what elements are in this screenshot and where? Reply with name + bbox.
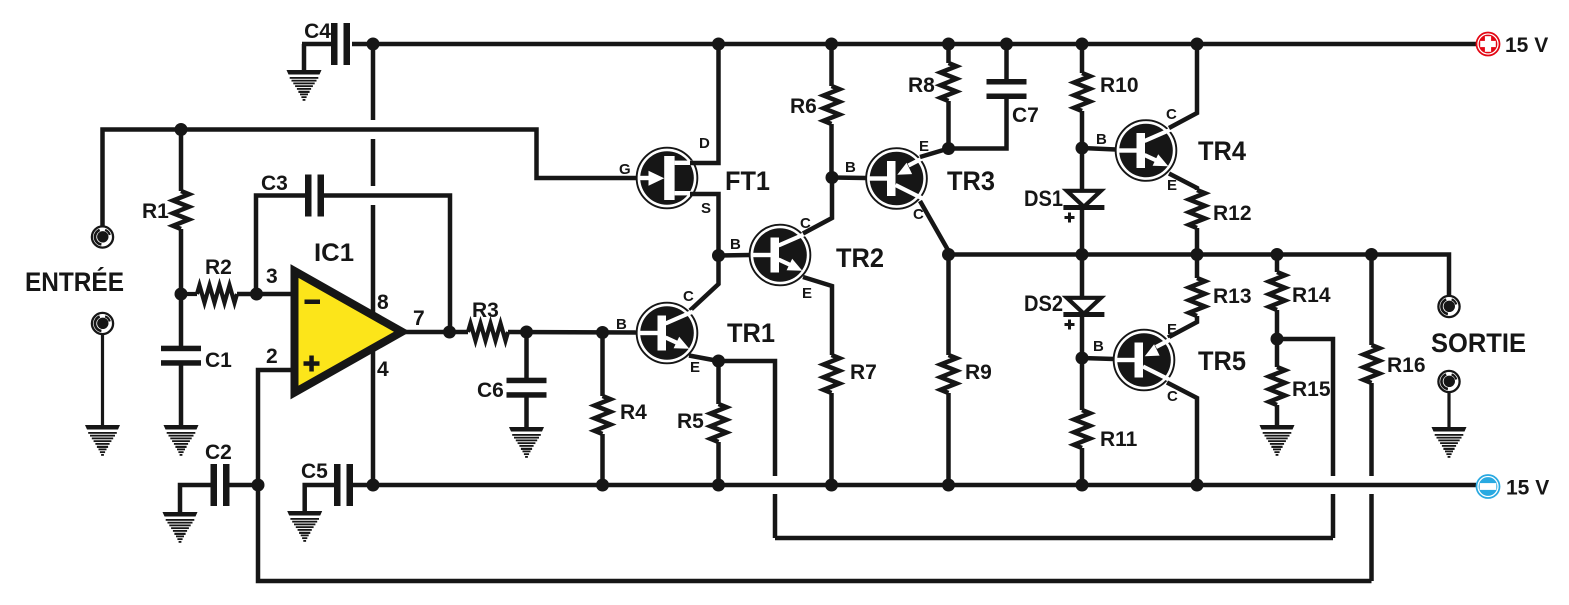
svg-text:DS1: DS1 (1024, 186, 1063, 211)
resistor R9 (941, 255, 992, 486)
svg-text:R15: R15 (1292, 378, 1331, 401)
diode DS2 (1024, 255, 1104, 359)
node TR4 collector top rail (1191, 38, 1204, 51)
node C7 top rail (1000, 38, 1013, 51)
resistor R12 (1169, 174, 1252, 255)
svg-text:B: B (616, 316, 627, 333)
transistor TR5 (1093, 321, 1246, 405)
svg-text:C2: C2 (205, 441, 232, 464)
wire output run pin7 to TR1 base (402, 330, 468, 335)
svg-text:R10: R10 (1100, 74, 1139, 97)
connector SORTIE signal (1438, 296, 1459, 317)
resistor R11 (1074, 358, 1138, 485)
resistor R10 (1074, 44, 1139, 148)
svg-text:TR1: TR1 (727, 318, 775, 348)
node R3/C6 (520, 326, 533, 339)
svg-text:S: S (701, 200, 711, 217)
svg-text:R5: R5 (677, 410, 704, 433)
node DS1 / DS2 / output rail (1076, 248, 1089, 261)
wire TR1 emitter diagonal (689, 356, 719, 362)
svg-text:R6: R6 (790, 95, 817, 118)
svg-text:C6: C6 (477, 379, 504, 402)
node R6 top rail (825, 38, 838, 51)
wire bottom supply rail (373, 483, 1476, 488)
svg-text:TR5: TR5 (1198, 346, 1246, 376)
wire TR3 collector drop (920, 201, 949, 255)
node R11 bottom (1076, 479, 1089, 492)
wire TR2 collector to R6 node (803, 178, 832, 234)
capacitor C2 (180, 441, 258, 512)
plus DS1 (1065, 213, 1075, 223)
ground C1 (164, 425, 199, 456)
wire ENTREE ground stem (101, 334, 104, 426)
svg-text:B: B (1093, 338, 1104, 355)
node C5 / pin4 (367, 479, 380, 492)
ground C2 (163, 512, 198, 543)
svg-text:G: G (619, 161, 631, 178)
capacitor C4 (302, 20, 350, 65)
svg-text:C: C (683, 288, 694, 305)
node R12 / R13 / output rail (1191, 248, 1204, 261)
wire FT1 source to node (690, 194, 719, 256)
wire C4 ground drop (302, 44, 307, 70)
resistor R14 (1269, 255, 1331, 340)
ground C6 (509, 427, 544, 458)
op-amp IC1 (295, 239, 403, 393)
svg-text:C7: C7 (1012, 104, 1039, 127)
svg-text:R8: R8 (908, 74, 935, 97)
svg-text:8: 8 (377, 291, 389, 314)
transistor TR1 (616, 288, 775, 376)
diode DS1 (1024, 148, 1104, 255)
wire top supply rail (352, 42, 1476, 47)
node FT1 source / TR2 base / TR1 collector (712, 249, 725, 262)
node TR1 emitter / R5 / feedback (712, 355, 725, 368)
svg-text:R14: R14 (1292, 284, 1331, 307)
wire TR4 collector riser (1169, 44, 1197, 128)
svg-text:C: C (1166, 106, 1177, 123)
resistor R6 (790, 44, 840, 178)
capacitor C1 (161, 294, 232, 426)
node R9 bottom (942, 479, 955, 492)
node output / C3 right (443, 326, 456, 339)
svg-text:2: 2 (266, 345, 278, 368)
transistor TR3 (845, 138, 995, 223)
svg-text:R4: R4 (620, 401, 647, 424)
transistor FT1 (619, 135, 770, 217)
svg-text:SORTIE: SORTIE (1431, 328, 1526, 358)
svg-text:C: C (1167, 388, 1178, 405)
wire SORTIE ground stem (1447, 392, 1450, 428)
node FT1 drain top rail (712, 38, 725, 51)
wire TR3 emitter diagonal (920, 149, 949, 158)
wire IC1 pin 4 riser (371, 350, 376, 485)
svg-text:R16: R16 (1387, 354, 1426, 377)
node R8 top rail (942, 38, 955, 51)
power -15V terminal (1476, 474, 1550, 499)
node top rail / IC1 pin8 riser (367, 38, 380, 51)
node R7 bottom (825, 479, 838, 492)
resistor R5 (677, 361, 727, 485)
node R14 top / output rail (1271, 248, 1284, 261)
wire IC1 pin 8 riser (hops over two wires) (371, 44, 376, 313)
svg-text:15 V: 15 V (1506, 477, 1549, 500)
capacitor C3 (256, 172, 450, 332)
svg-text:R3: R3 (472, 299, 499, 322)
node pin3 / C3 left (250, 288, 263, 301)
svg-text:C4: C4 (304, 20, 331, 43)
wire TR2 base (719, 253, 751, 258)
svg-text:B: B (845, 159, 856, 176)
node R4 bottom (596, 479, 609, 492)
plus DS2 (1065, 320, 1075, 330)
wire TR5 collector drop (1167, 383, 1197, 486)
svg-text:4: 4 (377, 358, 389, 381)
wire TR2 emitter to R7 (803, 277, 832, 355)
svg-text:FT1: FT1 (725, 166, 770, 196)
node TR3 emitter / R8 / C7 (942, 142, 955, 155)
svg-text:C1: C1 (205, 349, 232, 372)
ground R15 (1260, 425, 1295, 456)
wire output mid rail (949, 255, 1450, 297)
svg-text:E: E (1167, 177, 1177, 194)
svg-text:C5: C5 (301, 460, 328, 483)
wire input upper run to FT1 gate (103, 130, 638, 227)
svg-text:TR2: TR2 (836, 243, 884, 273)
node C2 / pin2 riser (252, 479, 265, 492)
connector ENTREE signal (92, 226, 113, 247)
capacitor C5 (301, 460, 373, 511)
node R6 / TR3 base / TR2 collector (826, 171, 839, 184)
power +15V terminal (1476, 32, 1549, 57)
node DS2 / R11 / TR5 base (1076, 352, 1089, 365)
svg-text:R11: R11 (1100, 428, 1138, 451)
capacitor C6 (477, 332, 547, 428)
svg-text:E: E (1167, 321, 1177, 338)
svg-text:E: E (802, 285, 812, 302)
ground ENTREE (85, 425, 120, 456)
svg-text:R12: R12 (1213, 202, 1252, 225)
svg-text:C3: C3 (261, 172, 288, 195)
svg-text:DS2: DS2 (1024, 291, 1063, 316)
wire feedback bottom run (258, 485, 1372, 581)
wire FT1 drain riser (690, 44, 719, 163)
node TR3 collector / R9 / output rail (942, 248, 955, 261)
svg-text:TR3: TR3 (947, 166, 995, 196)
svg-text:IC1: IC1 (314, 239, 354, 267)
connector SORTIE ground (1438, 371, 1459, 392)
resistor R15 (1269, 339, 1331, 426)
connector ENTREE ground (92, 313, 113, 334)
wire TR4 base (1082, 148, 1116, 150)
svg-text:R2: R2 (205, 256, 232, 279)
resistor R3 (468, 299, 637, 341)
node R16 top / output rail (1365, 248, 1378, 261)
wire IC1 pin 2 run (258, 370, 295, 485)
svg-text:3: 3 (266, 265, 278, 288)
wire feedback tap run (hop at rail) (1277, 339, 1333, 538)
ground C5 (287, 511, 322, 542)
svg-text:E: E (690, 359, 700, 376)
svg-text:R7: R7 (850, 361, 877, 384)
resistor R16 (1364, 255, 1426, 582)
wire TR5 base (1082, 358, 1114, 359)
node R10 top rail (1076, 38, 1089, 51)
wire TR1 collector riser (690, 256, 719, 311)
node R14 / R15 / feedback tap (1271, 333, 1284, 346)
resistor R4 (595, 333, 648, 486)
resistor R2 (181, 256, 295, 303)
wire low feedback run (775, 536, 1333, 541)
svg-text:ENTRÉE: ENTRÉE (25, 266, 124, 297)
resistor R8 (908, 44, 957, 149)
svg-text:7: 7 (413, 307, 425, 330)
ground C4 (287, 70, 322, 101)
node R10 / DS1 / TR4 base (1076, 142, 1089, 155)
wire TR3 base (832, 175, 866, 180)
svg-text:R1: R1 (142, 200, 169, 223)
svg-text:R9: R9 (965, 361, 992, 384)
capacitor C7 (949, 44, 1039, 149)
svg-text:15 V: 15 V (1505, 34, 1548, 57)
svg-text:D: D (699, 135, 710, 152)
svg-text:R13: R13 (1213, 285, 1252, 308)
transistor TR2 (730, 215, 884, 302)
svg-text:B: B (1096, 131, 1107, 148)
node R5 bottom (712, 479, 725, 492)
node TR5 collector bottom (1191, 479, 1204, 492)
ground SORTIE (1432, 427, 1467, 458)
node R1/R2/C1 (175, 288, 188, 301)
resistor R7 (824, 355, 877, 485)
wire TR1 emitter feedback drop (hop at rail) (719, 361, 776, 538)
transistor TR4 (1096, 106, 1246, 194)
node TR1 base / R4 (596, 326, 609, 339)
svg-text:B: B (730, 236, 741, 253)
node R1 top (175, 123, 188, 136)
resistor R13 (1168, 255, 1252, 338)
svg-text:TR4: TR4 (1198, 136, 1246, 166)
resistor R1 (142, 130, 189, 295)
